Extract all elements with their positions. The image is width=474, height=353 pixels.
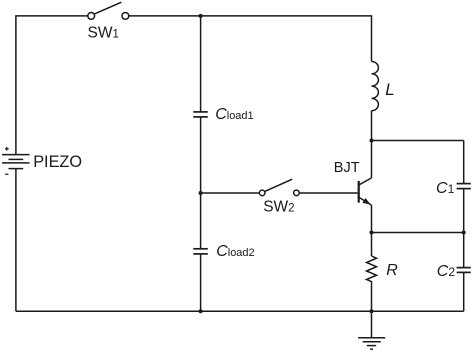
wire: load branch middle (Cload1 to Cload2 through SW2 tap) [200, 117, 202, 249]
ground [358, 338, 385, 350]
svg-text:SW2: SW2 [263, 199, 294, 216]
svg-text:C2: C2 [437, 263, 456, 280]
capacitor Cload1 [193, 112, 208, 117]
junction dot: bottom rail / ground node [370, 309, 374, 313]
wire: left rail lower from battery to bottom-left corner [15, 169, 17, 312]
capacitor C1 [457, 184, 471, 189]
svg-text:Cload2: Cload2 [216, 243, 254, 260]
wire: top rail from SW1 right terminal to inductor branch corner [129, 16, 372, 62]
switch SW1 [88, 2, 129, 19]
svg-text:BJT: BJT [334, 160, 360, 176]
capacitor C2 [457, 268, 471, 273]
junction dot: load branch / bottom rail node [199, 309, 203, 313]
wire: SW2 tap node to SW2 left terminal [201, 192, 259, 194]
battery + polarity mark [5, 147, 9, 151]
wire: bottom rail [16, 310, 464, 312]
wire: SW2 right terminal to BJT base [300, 192, 358, 194]
svg-text:SW1: SW1 [88, 24, 119, 41]
capacitor Cload2 [193, 249, 208, 254]
resistor R [367, 256, 377, 283]
wire: resistor bottom through bottom rail to ground stem [371, 283, 373, 337]
wire: right rail upper (collector wire down to C1) [463, 141, 465, 184]
battery B1 (PIEZO element) [2, 155, 30, 169]
wire: emitter node across to C1/C2 junction [372, 232, 464, 234]
inductor L [372, 62, 379, 111]
svg-text:R: R [386, 262, 398, 279]
svg-text:C1: C1 [436, 180, 455, 197]
svg-text:L: L [385, 80, 394, 99]
svg-text:Cload1: Cload1 [215, 106, 253, 123]
switch SW2 [259, 179, 299, 196]
junction dot: SW2 tap node on load branch [199, 191, 203, 195]
wire: right rail lower (C2 to bottom-right corner) [463, 273, 465, 312]
junction dot: collector / C1 top node [370, 139, 374, 143]
transistor BJT (NPN) [359, 178, 372, 205]
wire: right rail between C1 and C2 [463, 189, 465, 268]
wire: left rail upper + top rail to SW1 left terminal [16, 16, 88, 155]
wire: load branch upper (top rail to Cload1) [200, 16, 202, 112]
battery - polarity mark [5, 173, 8, 175]
wire: collector node across to C1 branch top [372, 140, 464, 142]
junction dot: top rail / load branch node [199, 14, 203, 18]
wire: BJT emitter down to resistor top [371, 205, 373, 256]
junction dot: emitter node [370, 231, 374, 235]
wire: load branch lower (Cload2 to bottom rail) [200, 254, 202, 311]
svg-text:PIEZO: PIEZO [33, 153, 82, 171]
junction dot: C1/C2 node on right rail [462, 231, 466, 235]
wire: inductor bottom to BJT collector corner [371, 111, 373, 178]
